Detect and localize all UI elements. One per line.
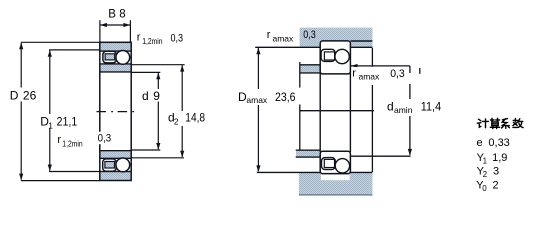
svg-text:r: r <box>352 67 356 79</box>
svg-text:1: 1 <box>483 157 488 166</box>
svg-text:8: 8 <box>119 9 125 21</box>
svg-text:amax: amax <box>246 95 268 105</box>
svg-text:r: r <box>137 31 141 43</box>
svg-text:0,3: 0,3 <box>390 68 405 80</box>
svg-text:B: B <box>108 9 116 21</box>
svg-text:d: d <box>142 89 149 103</box>
svg-text:amin: amin <box>394 105 413 115</box>
svg-text:14,8: 14,8 <box>185 111 205 125</box>
svg-text:0,3: 0,3 <box>171 33 184 45</box>
svg-text:1,9: 1,9 <box>492 152 507 164</box>
svg-text:26: 26 <box>23 89 37 103</box>
svg-text:2: 2 <box>483 170 488 179</box>
svg-text:e: e <box>477 137 483 149</box>
svg-text:11,4: 11,4 <box>421 100 442 114</box>
svg-text:0: 0 <box>482 184 487 193</box>
svg-text:amax: amax <box>359 72 381 82</box>
svg-text:1,2min: 1,2min <box>142 37 162 46</box>
svg-text:amax: amax <box>273 34 295 44</box>
svg-text:r: r <box>267 29 271 41</box>
svg-text:2: 2 <box>174 116 179 126</box>
svg-text:0,3: 0,3 <box>303 29 316 41</box>
svg-text:9: 9 <box>153 89 160 103</box>
svg-text:23,6: 23,6 <box>275 90 296 104</box>
svg-text:0,3: 0,3 <box>98 132 112 144</box>
svg-text:d: d <box>387 100 394 114</box>
svg-text:2: 2 <box>493 179 499 191</box>
svg-text:0,33: 0,33 <box>488 137 509 149</box>
svg-text:1: 1 <box>48 120 53 130</box>
svg-text:21,1: 21,1 <box>57 114 78 128</box>
svg-text:r: r <box>57 134 61 146</box>
svg-text:3: 3 <box>493 166 499 178</box>
svg-text:1,2min: 1,2min <box>62 139 82 148</box>
svg-text:D: D <box>10 89 19 103</box>
